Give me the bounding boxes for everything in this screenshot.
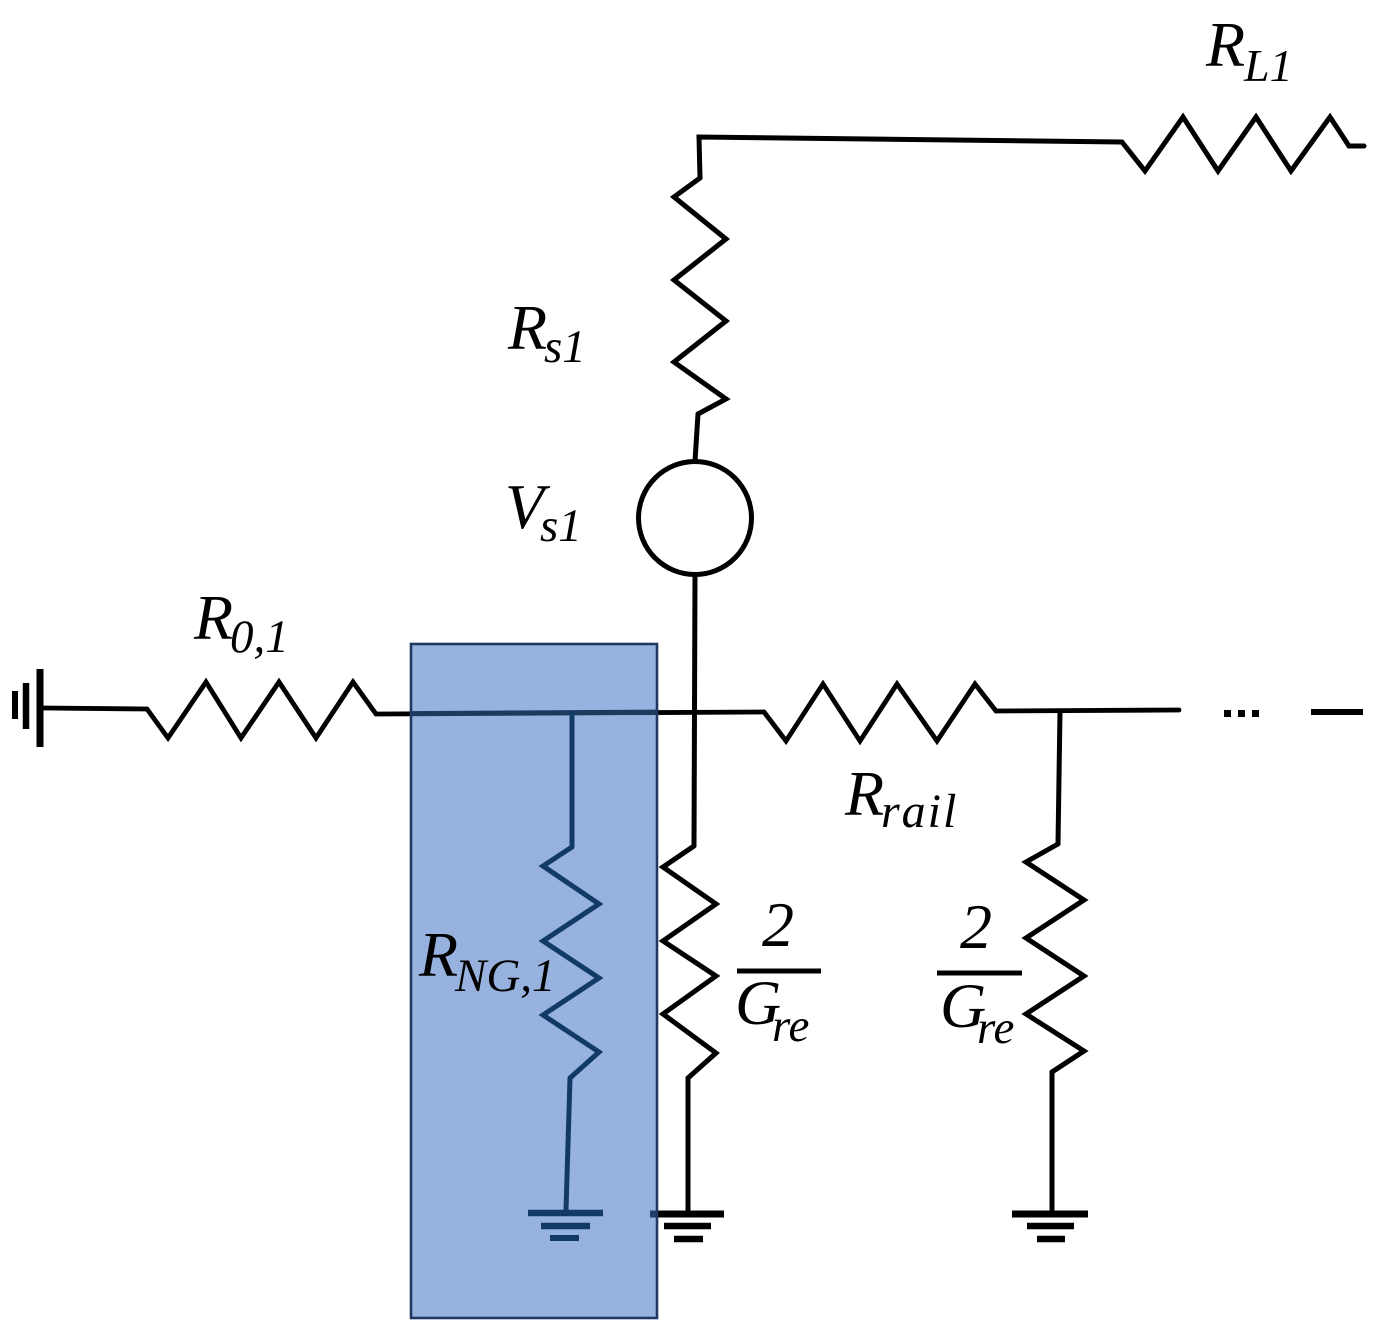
- resistor Rrail: [764, 684, 996, 741]
- label R0,1: [193, 582, 289, 663]
- svg-text:R: R: [193, 582, 233, 653]
- value label 2/Gre (second): [937, 891, 1022, 1054]
- label RL1: [1205, 9, 1293, 91]
- label Rs1: [507, 292, 586, 373]
- wire (rail segment inside highlight box): [411, 712, 657, 714]
- wire (tap from rail down to RNG,1): [570, 713, 575, 847]
- resistor 2/Gre (first): [663, 846, 716, 1078]
- label RNG,1: [418, 919, 556, 1002]
- resistor Rs1: [674, 178, 726, 414]
- svg-text:0,1: 0,1: [230, 611, 289, 663]
- svg-text:R: R: [844, 758, 884, 829]
- highlight box (semi-transparent blue overlay over RNG,1 branch): [411, 644, 657, 1318]
- ground (below second 2/Gre): [1012, 1214, 1088, 1239]
- resistor RNG,1: [543, 847, 599, 1078]
- value label 2/Gre (first): [735, 889, 821, 1052]
- wire (left ground to R0,1): [43, 708, 147, 709]
- svg-text:R: R: [507, 292, 547, 363]
- wire (Vs1 down across rail to first 2/Gre): [694, 575, 695, 846]
- wire (first 2/Gre to ground): [686, 1078, 691, 1211]
- ground (below first 2/Gre): [650, 1214, 724, 1239]
- svg-text:R: R: [418, 919, 458, 990]
- wire (rail: R0,1 through highlight box to Rrail): [376, 712, 764, 714]
- ground (below RNG,1): [528, 1213, 603, 1238]
- svg-text:2: 2: [960, 891, 992, 962]
- wire (rail stub at far right): [1311, 709, 1363, 715]
- svg-text:re: re: [977, 1002, 1014, 1054]
- resistor RL1: [1122, 117, 1364, 171]
- resistor R0,1: [147, 682, 376, 738]
- label Rrail: [844, 758, 958, 838]
- svg-text:s1: s1: [544, 321, 586, 373]
- wire (second 2/Gre to ground): [1050, 1072, 1055, 1212]
- svg-text:2: 2: [762, 889, 794, 960]
- voltage source Vs1: [639, 462, 752, 575]
- wire (RNG,1 to ground): [566, 1078, 570, 1210]
- wire (Rs1 to Vs1): [695, 414, 698, 461]
- resistor 2/Gre (second): [1026, 844, 1084, 1072]
- svg-text:s1: s1: [540, 500, 582, 552]
- wire (rail right of Rrail): [996, 710, 1179, 711]
- wire (top: RL1 to top of Rs1): [699, 137, 1122, 178]
- label Vs1: [505, 471, 582, 552]
- svg-text:R: R: [1205, 9, 1245, 80]
- node (junction of rail and second 2/Gre branch): [1058, 711, 1060, 844]
- ground (left, at input of R0,1): [15, 669, 40, 747]
- svg-text:NG,1: NG,1: [454, 950, 556, 1002]
- node (ellipsis: rail continues): [1224, 710, 1259, 717]
- svg-text:rail: rail: [881, 785, 958, 838]
- svg-text:re: re: [772, 1000, 809, 1052]
- svg-text:L1: L1: [1243, 40, 1293, 91]
